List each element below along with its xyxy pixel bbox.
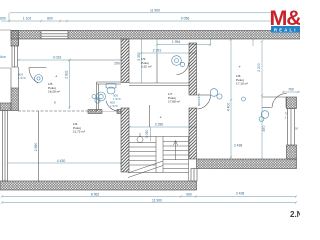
- svg-text:lkon: lkon: [0, 55, 6, 59]
- svg-text:3 050: 3 050: [145, 130, 149, 139]
- svg-text:8 962: 8 962: [91, 192, 100, 196]
- svg-text:1 970: 1 970: [18, 76, 26, 80]
- svg-text:11 900: 11 900: [150, 9, 160, 13]
- svg-text:1 994: 1 994: [172, 40, 181, 44]
- svg-text:2 200: 2 200: [257, 63, 261, 72]
- svg-text:2 890: 2 890: [34, 143, 38, 152]
- svg-text:960: 960: [186, 192, 192, 196]
- svg-text:3,32 m²: 3,32 m²: [141, 65, 152, 69]
- svg-text:18,28 m²: 18,28 m²: [48, 90, 60, 94]
- svg-text:3 280: 3 280: [155, 123, 164, 127]
- svg-text:800: 800: [47, 17, 53, 21]
- svg-text:760: 760: [288, 88, 294, 92]
- svg-text:2 821: 2 821: [64, 70, 68, 79]
- svg-text:REALI: REALI: [274, 28, 298, 33]
- svg-text:1 102: 1 102: [23, 17, 32, 21]
- svg-text:609: 609: [0, 17, 6, 21]
- svg-text:11,72 m²: 11,72 m²: [73, 130, 85, 134]
- svg-text:870: 870: [262, 126, 266, 132]
- svg-text:9 056: 9 056: [181, 17, 190, 21]
- svg-text:290: 290: [114, 62, 120, 66]
- svg-text:11 900: 11 900: [152, 198, 162, 202]
- svg-text:4 430: 4 430: [57, 159, 66, 163]
- svg-text:2.NP: 2.NP: [290, 210, 300, 219]
- svg-text:1 970: 1 970: [110, 104, 118, 108]
- svg-text:2 291: 2 291: [153, 49, 162, 53]
- svg-text:3 438: 3 438: [234, 144, 243, 148]
- svg-text:3 438: 3 438: [236, 192, 245, 196]
- svg-text:3 019: 3 019: [53, 56, 62, 60]
- svg-text:50: 50: [295, 127, 299, 131]
- svg-text:17,88 m²: 17,88 m²: [168, 100, 180, 104]
- svg-text:4 400: 4 400: [227, 103, 231, 112]
- svg-text:17,10 m²: 17,10 m²: [236, 82, 248, 86]
- svg-text:x: x: [54, 101, 56, 105]
